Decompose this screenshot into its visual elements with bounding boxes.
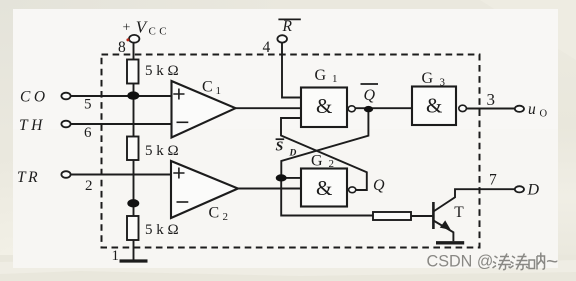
svg-text:5 k Ω: 5 k Ω <box>145 222 179 238</box>
svg-text:7: 7 <box>489 172 497 189</box>
svg-text:Q: Q <box>373 177 385 194</box>
svg-text:u: u <box>528 101 536 118</box>
svg-text:R: R <box>282 18 293 35</box>
svg-text:TH: TH <box>19 117 46 134</box>
svg-text:1: 1 <box>216 85 222 97</box>
svg-text:5: 5 <box>84 97 92 113</box>
svg-text:1: 1 <box>112 248 120 264</box>
svg-text:5 k Ω: 5 k Ω <box>145 63 179 79</box>
svg-text:5 k Ω: 5 k Ω <box>145 143 179 159</box>
svg-text:Q: Q <box>364 87 376 104</box>
svg-text:2: 2 <box>223 211 229 223</box>
svg-text:D: D <box>527 182 540 199</box>
svg-text:G: G <box>311 153 323 170</box>
svg-text:3: 3 <box>487 90 496 109</box>
svg-text:~: ~ <box>546 251 558 274</box>
svg-text:TR: TR <box>17 169 40 186</box>
svg-text:CC: CC <box>149 26 170 38</box>
svg-text:4: 4 <box>263 39 271 56</box>
svg-text:&: & <box>426 94 442 118</box>
svg-text:CSDN @: CSDN @ <box>427 253 494 271</box>
svg-text:6: 6 <box>84 125 92 141</box>
svg-text:T: T <box>454 204 464 221</box>
svg-text:3: 3 <box>440 77 446 89</box>
svg-text:2: 2 <box>329 158 335 170</box>
svg-text:2: 2 <box>85 178 93 194</box>
svg-text:CO: CO <box>20 89 49 106</box>
svg-text:O: O <box>540 109 548 120</box>
svg-text:&: & <box>316 176 332 200</box>
svg-text:G: G <box>422 70 434 87</box>
svg-text:G: G <box>315 67 327 84</box>
svg-text:8: 8 <box>118 39 126 56</box>
svg-text:1: 1 <box>332 73 338 85</box>
svg-text:+: + <box>123 21 131 36</box>
svg-text:C: C <box>209 205 220 222</box>
svg-text:S: S <box>276 140 284 155</box>
svg-text:C: C <box>202 79 213 96</box>
svg-text:&: & <box>316 94 332 118</box>
svg-text:D: D <box>289 149 297 159</box>
